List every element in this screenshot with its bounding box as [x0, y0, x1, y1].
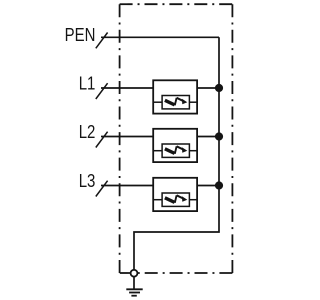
wire PEN	[101, 36, 219, 38]
ground symbol	[126, 277, 142, 296]
L1 entry slash	[96, 83, 108, 99]
surge arrester F1 on L1	[153, 80, 197, 113]
svg-text:L3: L3	[79, 170, 96, 191]
enclosure boundary (dash-dot frame)	[120, 4, 233, 273]
L2 entry slash	[96, 132, 108, 148]
surge arrester F2 on L2	[153, 129, 197, 162]
svg-text:L1: L1	[79, 73, 96, 94]
wire L2	[101, 136, 219, 138]
junction dot L3	[215, 181, 223, 189]
PEN entry slash	[96, 33, 108, 49]
wire L1	[101, 87, 219, 89]
earthing terminal (open circle on boundary)	[131, 270, 138, 277]
junction dot L1	[215, 84, 223, 92]
L3 entry slash	[96, 181, 108, 197]
svg-text:PEN: PEN	[65, 24, 96, 45]
junction dot L2	[215, 132, 223, 140]
svg-text:L2: L2	[79, 121, 96, 142]
wire L3	[101, 185, 219, 187]
surge arrester F3 on L3	[153, 178, 197, 211]
PEN bus wire (right vertical, bottom run, drop to earth terminal)	[134, 37, 219, 269]
